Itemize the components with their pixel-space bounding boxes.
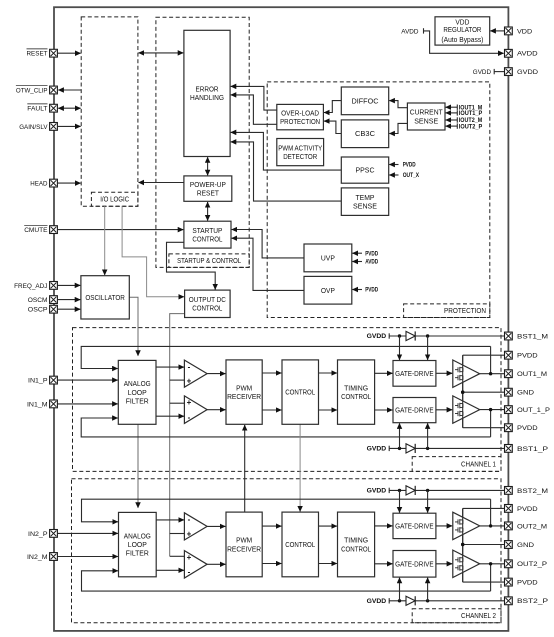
output stage ch1 supply vertical [462, 355, 464, 428]
net IOUT1_P [446, 110, 483, 117]
svg-text:CB3C: CB3C [355, 129, 375, 138]
pin OUT_1_P [505, 406, 551, 414]
block POWER-UP RESET [184, 176, 232, 201]
svg-text:OSCILLATOR: OSCILLATOR [85, 293, 125, 302]
CHANNEL 2 region [72, 479, 502, 623]
wire to comparator 2A + input [170, 533, 184, 535]
svg-text:PVDD: PVDD [517, 580, 538, 587]
svg-text:CONTROL: CONTROL [341, 544, 371, 553]
block PWM RECEIVER 1 [226, 360, 262, 424]
wire POWER-UP RESET to STARTUP CONTROL [207, 202, 209, 221]
block DIFFOC [341, 87, 388, 115]
feedback rail ch2 bottom [82, 571, 491, 591]
svg-text:PVDD: PVDD [517, 506, 538, 513]
wire output stage 2A to OUT2_M pin [480, 525, 505, 527]
feedback rail ch2 top [82, 499, 491, 522]
junction [426, 447, 429, 450]
I/O LOGIC label box [91, 192, 137, 206]
wire PVDD lower ch1 [463, 427, 505, 429]
wire output stage 2B to OUT2_P pin [480, 563, 505, 565]
wire GATE-DRIVE 3 to output stage 2A [436, 525, 452, 527]
wire I/O logic to ERROR HANDLING [139, 52, 184, 54]
svg-text:RECEIVER: RECEIVER [227, 544, 261, 553]
net PVDD into UVP [352, 251, 378, 257]
svg-text:OUT2_M: OUT2_M [517, 523, 547, 530]
svg-text:IN1_M: IN1_M [27, 401, 48, 408]
svg-text:AVDD: AVDD [365, 260, 379, 266]
svg-text:CONTROL: CONTROL [192, 234, 222, 243]
pin FREQ_ADJ [14, 282, 57, 290]
feedback tap ch1 bottom [490, 410, 492, 437]
svg-text:IOUT2_P: IOUT2_P [459, 124, 482, 130]
wire OVER-LOAD to ERROR HANDLING lower [231, 95, 277, 124]
pin IN2_P [28, 530, 57, 538]
svg-text:AVDD: AVDD [401, 28, 418, 35]
block VDD REGULATOR U1 [435, 17, 490, 45]
wire IN2_M to ALF2 [58, 556, 118, 558]
svg-text:CHANNEL 1: CHANNEL 1 [461, 460, 496, 469]
svg-text:GVDD: GVDD [367, 447, 387, 453]
junction [426, 334, 429, 337]
svg-text:HANDLING: HANDLING [190, 93, 224, 102]
wire TIMING CONTROL 2 to GATE-DRIVE 3 [375, 525, 393, 527]
wire FREQ_ADJ to OSCILLATOR [58, 284, 81, 286]
pin OTW_CLIP [16, 86, 58, 95]
wire to comparator 1B + input [170, 402, 184, 404]
wire IN1_M to ALF1 [58, 403, 118, 405]
arrow diode D2 right to GATE-DRIVE 2 [427, 423, 429, 448]
svg-text:GVDD: GVDD [367, 334, 387, 340]
svg-text:FILTER: FILTER [126, 396, 149, 405]
wire DIFFOC to OVER-LOAD [324, 101, 341, 113]
block OSCILLATOR [81, 276, 129, 319]
svg-text:PROTECTION: PROTECTION [280, 117, 320, 126]
svg-text:CONTROL: CONTROL [192, 304, 222, 313]
net IOUT1_M [446, 105, 483, 112]
feedback rail ch1 top [81, 346, 490, 368]
svg-text:OUT1_M: OUT1_M [517, 371, 547, 378]
svg-text:AVDD: AVDD [517, 51, 538, 58]
tick GVDD ch1 bottom [388, 446, 390, 451]
svg-text:BST2_M: BST2_M [517, 488, 548, 495]
junction [426, 489, 429, 492]
block CONTROL 1 [282, 360, 319, 424]
net PVDD into PPSC [389, 163, 416, 169]
wire CONTROL 1 to TIMING CONTROL 1 upper [319, 372, 337, 374]
wire VDD pin to regulator [490, 30, 504, 32]
wire comparator 1A to PWM RECEIVER 1 [207, 373, 225, 375]
wire HEAD to I/O logic [58, 182, 81, 184]
svg-text:BST2_P: BST2_P [517, 598, 549, 605]
block UVP [304, 244, 352, 272]
block PWM RECEIVER 2 [226, 512, 262, 577]
svg-text:GND: GND [517, 542, 534, 549]
pin OSCP [28, 305, 58, 313]
svg-text:BST1_M: BST1_M [517, 333, 548, 340]
svg-text:OSCM: OSCM [28, 297, 48, 304]
svg-text:IOUT1_P: IOUT1_P [459, 111, 482, 117]
svg-text:GATE-DRIVE: GATE-DRIVE [395, 559, 434, 568]
wire PVDD lower ch2 [463, 581, 505, 583]
svg-text:GAIN/SLV: GAIN/SLV [19, 124, 48, 131]
CHANNEL 2 label box [412, 609, 501, 623]
arrow diode D1 left to GATE-DRIVE 1 [399, 336, 401, 360]
tick GVDD ch2 top [388, 488, 390, 493]
svg-text:BST1_P: BST1_P [517, 446, 549, 453]
CHANNEL 1 label box [412, 457, 501, 472]
wire CONTROL 1 to CONTROL 2 [299, 424, 301, 511]
pin IN1_M [27, 400, 57, 408]
svg-text:(Auto Bypass): (Auto Bypass) [441, 35, 483, 44]
wire AVDD to AVDD pin [424, 31, 504, 53]
wire GATE-DRIVE 1 to output stage 1A [436, 372, 452, 374]
wire I/O logic to OUTPUT DC CONTROL [122, 206, 184, 297]
wire OSCM to OSCILLATOR [58, 299, 81, 301]
wire GATE-DRIVE 4 to output stage 2B [436, 563, 452, 565]
wire ALF2 to comparator 2B [156, 569, 184, 571]
wire STARTUP CONTROL to OUTPUT DC CONTROL [167, 242, 216, 289]
arrow diode D1 right to GATE-DRIVE 1 [427, 336, 429, 360]
svg-text:OVP: OVP [321, 286, 335, 295]
wire comparator 2B to PWM RECEIVER 2 [207, 563, 225, 565]
pin OUT1_M [505, 370, 548, 378]
pin GVDD [505, 68, 539, 76]
svg-text:GATE-DRIVE: GATE-DRIVE [395, 369, 434, 378]
output stage ch1 supply vertical overlay [462, 355, 464, 428]
block PWM ACTIVITY DETECTOR [277, 139, 324, 166]
junction [426, 599, 429, 602]
svg-text:UVP: UVP [321, 253, 335, 262]
block TIMING CONTROL 2 [338, 512, 375, 577]
junction [461, 391, 464, 394]
wire TIMING CONTROL 1 to GATE-DRIVE 2 [375, 409, 393, 411]
svg-text:PVDD: PVDD [403, 163, 417, 169]
wire GND ch1 [463, 391, 505, 393]
svg-text:FAULT: FAULT [27, 106, 47, 113]
wire GATE-DRIVE 2 to output stage 1B [436, 409, 452, 411]
wire TEMP SENSE to ERROR HANDLING [231, 142, 342, 201]
wire to comparator 2B + input [170, 555, 184, 557]
wire FAULT to I/O logic [58, 107, 80, 109]
block GATE-DRIVE 2 [393, 398, 436, 423]
PROTECTION label box [404, 304, 490, 318]
tick GVDD ch2 bottom [388, 598, 390, 603]
svg-text:GVDD: GVDD [517, 69, 538, 76]
wire RESET to I/O logic [58, 52, 81, 54]
pin AVDD [505, 49, 538, 57]
arrow diode D3 left to GATE-DRIVE 3 [399, 490, 401, 512]
feedback tap ch2 top [490, 499, 492, 526]
svg-text:PVDD: PVDD [365, 288, 379, 294]
wire output stage 1A to OUT1_M pin [480, 373, 505, 375]
wire ERROR HANDLING to POWER-UP RESET [207, 157, 209, 175]
svg-text:GND: GND [517, 390, 534, 397]
junction [398, 489, 401, 492]
junction [461, 391, 464, 394]
wire PWM RECEIVER 2 to PWM RECEIVER 1 [244, 425, 246, 512]
wire comparator 1B to PWM RECEIVER 1 [207, 409, 225, 411]
pin BST2_P [505, 597, 549, 605]
block GATE-DRIVE 3 [393, 513, 436, 538]
bootstrap diode D2 [406, 444, 415, 453]
svg-text:PVDD: PVDD [517, 353, 538, 360]
comparator 1B [184, 396, 207, 424]
wire POWER-UP RESET to I/O logic [139, 182, 184, 184]
pin PVDD ch2 lower [505, 578, 538, 586]
svg-text:I/O LOGIC: I/O LOGIC [100, 195, 129, 204]
block STARTUP CONTROL [184, 221, 231, 248]
wire output stage 1B to OUT_1_P pin [480, 409, 505, 411]
wire OUTPUT DC CONTROL to comparator + inputs [170, 314, 185, 557]
block CB3C [341, 120, 388, 148]
wire ALF1 to comparator 1B [156, 415, 184, 417]
pin GAIN/SLV [19, 123, 57, 131]
svg-text:HEAD: HEAD [30, 181, 47, 188]
svg-text:STARTUP & CONTROL: STARTUP & CONTROL [177, 256, 241, 265]
svg-text:GVDD: GVDD [367, 599, 387, 605]
block CONTROL 2 [282, 512, 319, 577]
wire UVP to STARTUP CONTROL [232, 230, 304, 258]
svg-text:SENSE: SENSE [414, 116, 438, 125]
pin OUT2_P [505, 560, 548, 568]
output stage ch2 supply vertical [462, 508, 464, 582]
pin IN1_P [28, 376, 57, 384]
wire oscillator line ALF1 to ALF2 [137, 424, 139, 508]
wire PWM RECEIVER 1 to CONTROL 1 upper [262, 372, 281, 374]
wire GVDD diode line BST1_P [389, 447, 504, 449]
svg-text:FILTER: FILTER [126, 549, 149, 558]
pin PVDD ch1 lower [505, 424, 538, 432]
pin PVDD ch2 upper [505, 505, 538, 513]
pin GND ch2 [505, 541, 535, 549]
wire GVDD diode line BST1_M [389, 335, 504, 337]
net AVDD into UVP [352, 260, 378, 266]
comparator 1A [184, 360, 207, 387]
svg-text:CONTROL: CONTROL [285, 388, 315, 397]
wire PVDD upper ch2 [463, 507, 505, 509]
net IOUT2_M [446, 117, 483, 124]
svg-text:IN1_P: IN1_P [28, 378, 48, 385]
svg-text:PPSC: PPSC [356, 166, 375, 175]
block OVP [304, 276, 352, 304]
svg-text:DETECTOR: DETECTOR [283, 152, 317, 161]
wire GVDD tick to pin [494, 71, 504, 73]
svg-text:RESET: RESET [27, 51, 48, 58]
svg-text:CONTROL: CONTROL [285, 540, 315, 549]
wire PWM RECEIVER 1 to CONTROL 1 lower [262, 409, 281, 411]
bootstrap diode D1 [406, 331, 415, 340]
tick AVDD [423, 28, 425, 33]
junction [489, 408, 492, 411]
arrow diode D3 right to GATE-DRIVE 3 [427, 490, 429, 512]
block ERROR HANDLING [184, 30, 230, 156]
svg-text:PROTECTION: PROTECTION [444, 306, 486, 315]
wire I/O logic to OSCILLATOR [104, 206, 106, 275]
svg-text:-: - [188, 413, 191, 422]
svg-text:OUT_1_P: OUT_1_P [517, 407, 551, 414]
wire OVER-LOAD to ERROR HANDLING upper [231, 86, 277, 110]
svg-text:FREQ_ADJ: FREQ_ADJ [14, 283, 47, 290]
svg-text:CHANNEL 2: CHANNEL 2 [461, 611, 496, 620]
pin OUT2_M [505, 522, 548, 530]
STARTUP &amp; CONTROL region [156, 17, 249, 267]
svg-text:OUT2_P: OUT2_P [517, 561, 548, 568]
svg-text:OUT_X: OUT_X [403, 173, 419, 179]
svg-text:-: - [188, 515, 191, 524]
tick GVDD [493, 69, 495, 74]
wire ALF1 to comparator 1A [156, 366, 184, 368]
svg-text:IN2_P: IN2_P [28, 531, 48, 538]
block OUTPUT DC CONTROL [185, 290, 231, 317]
wire CONTROL 1 to TIMING CONTROL 1 lower [319, 409, 337, 411]
output stage power FETs 2A [453, 512, 480, 539]
svg-text:+: + [187, 377, 192, 386]
pin OSCM [28, 296, 58, 304]
comparator 2B [184, 551, 207, 578]
block CURRENT SENSE [407, 103, 445, 130]
arrow diode D2 left to GATE-DRIVE 2 [399, 423, 401, 448]
svg-text:IN2_M: IN2_M [27, 554, 48, 561]
output stage power FETs 1B [453, 396, 480, 423]
pin VDD [505, 27, 533, 35]
wire PVDD upper ch1 [463, 354, 505, 356]
wire PPSC to ERROR HANDLING [231, 132, 342, 170]
block ANALOG LOOP FILTER 1 [118, 360, 156, 424]
pin IN2_M [27, 553, 57, 561]
svg-text:-: - [188, 567, 191, 576]
STARTUP & CONTROL label box [169, 254, 249, 268]
pin HEAD [30, 179, 57, 187]
wire IN1_P to ALF1 [58, 379, 118, 381]
block TEMP SENSE [341, 188, 388, 216]
wire TIMING CONTROL 2 to GATE-DRIVE 4 [375, 563, 393, 565]
svg-text:PVDD: PVDD [517, 425, 538, 432]
pin CMUTE [24, 225, 57, 234]
svg-text:OSCP: OSCP [28, 307, 48, 314]
wire to comparator 1A + input [170, 379, 184, 381]
svg-text:-: - [188, 362, 191, 371]
CHANNEL 1 region [73, 328, 502, 472]
junction [461, 543, 464, 546]
svg-text:GATE-DRIVE: GATE-DRIVE [395, 521, 434, 530]
bootstrap diode D3 [406, 486, 415, 495]
wire PWM RECEIVER 2 to CONTROL 2 lower [262, 563, 281, 565]
svg-text:REGULATOR: REGULATOR [443, 25, 481, 34]
bootstrap diode D4 [406, 596, 415, 605]
tick GVDD ch1 top [388, 333, 390, 338]
svg-text:DIFFOC: DIFFOC [352, 96, 379, 105]
pin RESET [27, 49, 58, 58]
wire GVDD diode line BST2_P [389, 600, 504, 602]
wire comparator 2A to PWM RECEIVER 2 [207, 525, 225, 527]
svg-text:+: + [187, 553, 192, 562]
wire CURRENT SENSE to CB3C [389, 123, 407, 133]
svg-text:+: + [187, 529, 192, 538]
junction [398, 599, 401, 602]
pin PVDD ch1 upper [505, 351, 538, 359]
junction [489, 524, 492, 527]
junction [489, 372, 492, 375]
junction [489, 562, 492, 565]
pin BST2_M [505, 487, 549, 495]
wire OVP to STARTUP CONTROL [232, 238, 304, 290]
wire GND ch2 [463, 544, 505, 546]
wire IN2_P to ALF2 [58, 532, 118, 534]
wire I/O logic to OTW_CLIP [58, 89, 81, 91]
wire TIMING CONTROL 1 to GATE-DRIVE 1 [375, 372, 393, 374]
pin FAULT [27, 104, 57, 113]
net PVDD into OVP [352, 288, 378, 294]
svg-text:GATE-DRIVE: GATE-DRIVE [395, 406, 434, 415]
svg-text:GVDD: GVDD [367, 489, 387, 495]
block GATE-DRIVE 4 [393, 551, 436, 578]
block PPSC [341, 157, 388, 183]
PROTECTION region [267, 82, 490, 318]
output stage ch2 supply vertical overlay [462, 508, 464, 582]
svg-text:CMUTE: CMUTE [24, 227, 48, 234]
svg-text:SENSE: SENSE [353, 201, 377, 210]
block ANALOG LOOP FILTER 2 [119, 512, 157, 576]
wire GAIN/SLV to I/O logic [58, 125, 81, 127]
svg-text:RESET: RESET [197, 188, 220, 197]
svg-text:CONTROL: CONTROL [341, 392, 371, 401]
net OUT_X into PPSC [389, 173, 419, 179]
pin BST1_P [505, 445, 549, 453]
wire OSCILLATOR output down to ALF1 [129, 297, 138, 356]
junction [398, 447, 401, 450]
net IOUT2_P [446, 123, 483, 130]
feedback rail ch1 bottom [81, 418, 490, 437]
svg-text:IOUT2_M: IOUT2_M [459, 118, 482, 124]
svg-text:+: + [187, 398, 192, 407]
wire ALF2 to comparator 2A [156, 519, 184, 521]
comparator 2A [184, 513, 207, 540]
output stage power FETs 1A [453, 360, 480, 387]
arrow diode D4 left to GATE-DRIVE 4 [399, 578, 401, 601]
block GATE-DRIVE 1 [393, 361, 436, 387]
junction [461, 543, 464, 546]
wire CONTROL 2 to TIMING CONTROL 2 lower [319, 563, 337, 565]
svg-text:ANALOG: ANALOG [124, 379, 151, 388]
svg-text:GVDD: GVDD [473, 69, 491, 76]
wire CB3C to OVER-LOAD [324, 121, 341, 133]
junction [398, 334, 401, 337]
wire PWM RECEIVER 2 to CONTROL 2 upper [262, 525, 281, 527]
wire CONTROL 2 to TIMING CONTROL 2 upper [319, 525, 337, 527]
feedback tap ch1 top [490, 346, 492, 373]
wire GVDD diode line BST2_M [389, 489, 504, 491]
output stage power FETs 2B [453, 550, 480, 577]
svg-text:VDD: VDD [517, 28, 532, 35]
arrow diode D4 right to GATE-DRIVE 4 [427, 578, 429, 601]
pin BST1_M [505, 332, 549, 340]
wire OSCP to OSCILLATOR [58, 308, 81, 310]
wire CURRENT SENSE to DIFFOC [389, 101, 407, 108]
svg-text:RECEIVER: RECEIVER [227, 392, 261, 401]
svg-text:PVDD: PVDD [365, 251, 379, 257]
pin GND ch1 [505, 388, 535, 396]
block TIMING CONTROL 1 [338, 360, 375, 424]
I/O LOGIC region [81, 17, 138, 206]
wire CMUTE to STARTUP CONTROL [58, 229, 184, 231]
svg-text:OTW_CLIP: OTW_CLIP [16, 87, 48, 94]
block OVER-LOAD PROTECTION [277, 104, 324, 129]
feedback tap ch2 bottom [490, 564, 492, 591]
